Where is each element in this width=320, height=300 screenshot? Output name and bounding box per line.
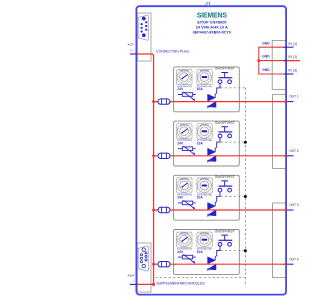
svg-text:0V (3): 0V (3): [288, 69, 297, 73]
control wire from button to switch gate block 4: [215, 246, 220, 260]
terminal group bracket OUT3/OUT4: [273, 203, 286, 278]
current dial (10A) block 2: [197, 124, 212, 139]
svg-text:ON/OFF/RST: ON/OFF/RST: [215, 175, 235, 179]
GND bus top right: [259, 47, 300, 74]
terminal OUT 2: [284, 155, 294, 157]
adjustment arrow block 4: [183, 254, 193, 262]
control bus junction dot 2: [244, 195, 247, 198]
svg-text:OUT 2: OUT 2: [289, 149, 299, 153]
adjustment arrow block 3: [183, 200, 193, 208]
svg-text:XCP: XCP: [127, 42, 133, 46]
svg-text:4 8 12 16 20: 4 8 12 16 20: [180, 71, 189, 73]
control wire from button to switch gate block 2: [215, 138, 220, 152]
svg-text:24V: 24V: [177, 250, 184, 254]
output wire row OUT 3: [154, 209, 288, 211]
terminal stub XCP side: [130, 53, 137, 55]
svg-text:10A: 10A: [197, 141, 204, 145]
svg-text:4 8 12 16 20: 4 8 12 16 20: [200, 233, 209, 235]
svg-text:4 8 12 16 20: 4 8 12 16 20: [200, 179, 209, 181]
output wire row OUT 2: [154, 155, 288, 157]
svg-text:0V (2): 0V (2): [288, 55, 297, 59]
electronic switch Q4: [208, 257, 215, 264]
electronic switch Q2: [208, 149, 215, 156]
module outline -7T: [136, 6, 286, 294]
svg-text:4 8 12 16 20: 4 8 12 16 20: [180, 125, 189, 127]
D-sub connector XCP: [138, 15, 148, 40]
svg-text:10A: 10A: [197, 87, 204, 91]
svg-text:6EP4437-8XB00-0CY0: 6EP4437-8XB00-0CY0: [193, 30, 231, 34]
terminal OUT 3: [284, 209, 294, 211]
terminal 0V (1): [284, 46, 294, 48]
dashed control line from block 4 to control bus: [221, 250, 246, 252]
fuse F3: [158, 207, 170, 212]
terminal group bracket OUT1/OUT2: [273, 95, 286, 169]
svg-text:24V: 24V: [177, 87, 184, 91]
svg-text:10A: 10A: [197, 250, 204, 254]
svg-text:XSM: XSM: [127, 273, 134, 277]
dashed control bus (vertical): [244, 88, 246, 285]
svg-text:ON/OFF/RST: ON/OFF/RST: [215, 67, 235, 71]
adjustment arrow block 2: [183, 146, 193, 154]
dashed supplementary-modules boundary (bottom): [156, 276, 246, 278]
svg-text:24V: 24V: [177, 196, 184, 200]
D-sub connector XSM: [138, 246, 148, 271]
connector housing XCP: [137, 13, 151, 61]
svg-text:10A: 10A: [197, 196, 204, 200]
supply bus junction dot 1: [152, 100, 155, 103]
adjustable limiter box block 2: [182, 147, 192, 151]
adjustable limiter wire block 3: [178, 202, 196, 204]
channel block 3 outline: [174, 175, 240, 220]
adjustable limiter wire block 1: [178, 94, 196, 96]
supply bus junction dot 2: [152, 154, 155, 157]
channel block 4 outline: [174, 230, 240, 275]
output wire row OUT 4: [154, 263, 288, 265]
wire supply bus to XSM plug: [137, 283, 154, 285]
terminal OUT 4: [284, 263, 294, 265]
current dial (10A) block 3: [197, 178, 212, 193]
supply bus end dot (to XSM): [152, 283, 155, 286]
adjustment arrow block 1: [183, 92, 193, 100]
svg-text:OUT 1: OUT 1: [289, 95, 299, 99]
electronic switch Q3: [208, 203, 215, 210]
fuse F1: [158, 99, 170, 104]
svg-text:GND: GND: [262, 68, 270, 72]
pushbutton S1: [218, 73, 232, 84]
adjustable limiter wire block 2: [178, 148, 196, 150]
adjustable limiter box block 3: [182, 201, 192, 205]
terminal 0V (3): [284, 73, 294, 75]
dashed control line from block 3 to control bus: [221, 195, 246, 197]
svg-text:SIEMENS: SIEMENS: [197, 13, 228, 20]
svg-text:4 8 12 16 20: 4 8 12 16 20: [180, 179, 189, 181]
terminal stub XSM side: [130, 283, 137, 285]
svg-text:GND: GND: [262, 41, 270, 45]
svg-text:4 8 12 16 20: 4 8 12 16 20: [200, 125, 209, 127]
pushbutton S2: [218, 127, 232, 138]
fuse F4: [158, 262, 170, 267]
svg-text:OUT 3: OUT 3: [289, 203, 299, 207]
terminal group bracket 0V: [272, 40, 286, 89]
supply bus junction dot 4: [152, 263, 155, 266]
output wire row OUT 1: [154, 101, 288, 103]
svg-text:CONNECTING PLUG: CONNECTING PLUG: [156, 49, 189, 53]
voltage dial (24V) block 4: [177, 232, 192, 247]
svg-text:OUT 4: OUT 4: [289, 257, 299, 261]
channel block 1 outline: [174, 67, 240, 112]
adjustable limiter box block 4: [182, 255, 192, 259]
adjustable limiter wire block 4: [178, 256, 196, 258]
svg-text:-7T: -7T: [205, 1, 212, 6]
svg-text:4 8 12 16 20: 4 8 12 16 20: [200, 71, 209, 73]
current dial (10A) block 4: [197, 232, 212, 247]
current dial (10A) block 1: [197, 70, 212, 85]
external GND wire overlay: [286, 60, 300, 62]
svg-text:24V: 24V: [177, 141, 184, 145]
svg-text:24 V/40 A/4X 10 A: 24 V/40 A/4X 10 A: [196, 25, 228, 30]
svg-text:ON/OFF/RST: ON/OFF/RST: [215, 229, 235, 233]
terminal OUT 1: [284, 101, 294, 103]
electronic switch Q1: [208, 94, 215, 101]
control bus junction dot 3: [244, 249, 247, 252]
svg-text:ON/OFF/RST: ON/OFF/RST: [215, 121, 235, 125]
fuse F2: [158, 153, 170, 158]
control wire from button to switch gate block 3: [215, 192, 220, 206]
dashed control line from block 1 to control bus: [221, 87, 246, 89]
terminal 0V (2): [284, 60, 294, 62]
svg-text:0V (1): 0V (1): [288, 42, 297, 46]
dashed control line from block 2 to control bus: [221, 141, 246, 143]
supply bus junction dot 3: [152, 209, 155, 212]
pushbutton S4: [218, 235, 232, 246]
svg-text:4 8 12 16 20: 4 8 12 16 20: [180, 233, 189, 235]
control bus junction dot 1: [244, 141, 247, 144]
svg-text:SUPPLEMENTARY MODULES: SUPPLEMENTARY MODULES: [156, 281, 205, 286]
voltage dial (24V) block 2: [177, 124, 192, 139]
channel block 2 outline: [174, 121, 240, 166]
control wire from button to switch gate block 1: [215, 84, 220, 98]
voltage dial (24V) block 1: [177, 70, 192, 85]
adjustable limiter box block 1: [182, 93, 192, 97]
pushbutton S3: [218, 181, 232, 192]
svg-text:GND: GND: [262, 55, 270, 59]
24V supply bus from connecting plug: [137, 54, 154, 284]
voltage dial (24V) block 3: [177, 178, 192, 193]
connector housing XSM: [137, 243, 151, 292]
GND bus junction dot: [257, 59, 260, 62]
